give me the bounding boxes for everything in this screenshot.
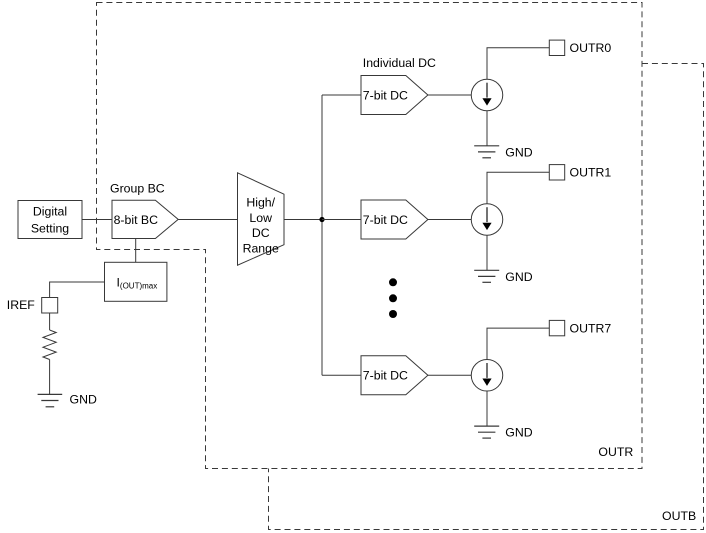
- block 8-bit BC (pentagon): [112, 200, 178, 238]
- svg-text:DC: DC: [252, 226, 270, 240]
- block Digital Setting: [18, 201, 82, 239]
- svg-text:Group BC: Group BC: [110, 182, 165, 196]
- svg-text:Digital: Digital: [33, 205, 67, 219]
- wire 8-bit BC to High/Low DC Range: [178, 219, 237, 221]
- block 7-bit DC row 2 (pentagon): [361, 200, 428, 239]
- svg-text:OUTB: OUTB: [662, 509, 696, 523]
- label OUTB: [662, 509, 696, 523]
- current source row 1 (circle with arrow): [471, 79, 503, 111]
- block 7-bit DC row 3 (pentagon): [361, 356, 428, 395]
- svg-text:7-bit DC: 7-bit DC: [363, 369, 408, 383]
- svg-text:OUTR1: OUTR1: [570, 166, 612, 180]
- wire 7-bit DC to current source row 2: [428, 219, 471, 221]
- ground row 3: [474, 426, 533, 440]
- svg-text:7-bit DC: 7-bit DC: [363, 88, 408, 102]
- label OUTR: [598, 445, 633, 459]
- label OUTR7: [570, 322, 612, 336]
- pin IREF (square): [42, 298, 58, 314]
- block 7-bit DC row 1 (pentagon): [361, 76, 428, 115]
- svg-text:GND: GND: [70, 392, 97, 406]
- OUTB group dashed boundary: [269, 64, 704, 530]
- svg-text:Low: Low: [249, 211, 272, 225]
- wire current source to ground row 1: [486, 111, 488, 146]
- svg-text:OUTR7: OUTR7: [570, 322, 612, 336]
- current source row 3 (circle with arrow): [471, 360, 503, 392]
- svg-text:7-bit DC: 7-bit DC: [363, 213, 408, 227]
- current source row 2 (circle with arrow): [471, 204, 503, 236]
- svg-text:8-bit BC: 8-bit BC: [114, 213, 159, 227]
- svg-text:GND: GND: [505, 426, 532, 440]
- wire bus to 7-bit DC row 3: [322, 374, 361, 376]
- wire 8-bit BC to I(OUT)max: [135, 239, 137, 263]
- wire current source to OUTR7 pin: [487, 328, 549, 359]
- node bus junction: [319, 217, 324, 222]
- ground (IREF): [38, 392, 97, 406]
- wire Digital Setting to 8-bit BC: [82, 219, 112, 221]
- label Group BC: [110, 182, 165, 196]
- wire I(OUT)max to IREF pin: [50, 282, 105, 298]
- svg-text:Setting: Setting: [31, 222, 69, 236]
- block I(OUT)max: [105, 262, 167, 301]
- wire current source to OUTR0 pin: [487, 48, 549, 79]
- label OUTR0: [570, 41, 612, 55]
- block High/Low DC Range (trapezoid): [238, 173, 285, 265]
- resistor RREF: [43, 330, 56, 360]
- wire IREF pin to resistor: [49, 313, 51, 330]
- svg-text:IREF: IREF: [7, 298, 35, 312]
- svg-text:OUTR: OUTR: [598, 445, 633, 459]
- pin OUTR0 (square): [549, 40, 564, 55]
- label IREF: [7, 298, 35, 312]
- label Individual DC: [363, 56, 436, 70]
- label OUTR1: [570, 166, 612, 180]
- wire bus to 7-bit DC row 2: [322, 219, 361, 221]
- ellipsis dots: [389, 278, 397, 318]
- wire 7-bit DC to current source row 1: [428, 94, 471, 96]
- svg-text:GND: GND: [505, 145, 532, 159]
- svg-text:Individual DC: Individual DC: [363, 56, 436, 70]
- pin OUTR7 (square): [549, 320, 564, 335]
- wire current source to OUTR1 pin: [487, 172, 549, 203]
- ground row 1: [474, 145, 533, 159]
- wire current source to ground row 2: [486, 235, 488, 270]
- svg-text:OUTR0: OUTR0: [570, 41, 612, 55]
- svg-text:GND: GND: [505, 270, 532, 284]
- ground row 2: [474, 270, 533, 284]
- svg-text:Range: Range: [243, 241, 279, 255]
- wire 7-bit DC to current source row 3: [428, 374, 471, 376]
- wire resistor to ground: [49, 360, 51, 395]
- wire current source to ground row 3: [486, 391, 488, 426]
- wire High/Low DC Range to bus: [284, 219, 322, 221]
- pin OUTR1 (square): [549, 165, 564, 180]
- svg-text:High/: High/: [246, 196, 275, 210]
- wire bus to 7-bit DC row 1: [322, 94, 361, 96]
- bus vertical wire: [321, 95, 323, 375]
- OUTR group dashed boundary: [97, 3, 643, 469]
